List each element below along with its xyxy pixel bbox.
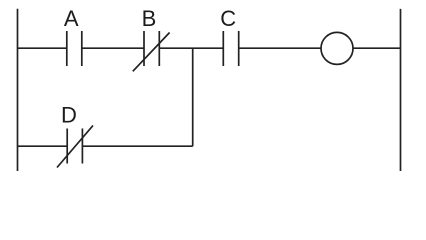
wire rung1 left rail to contact A [18, 47, 67, 49]
wire output coil to right rail [353, 47, 401, 49]
output coil [321, 32, 353, 64]
wire contact A to contact B [82, 47, 144, 49]
contact D (normally closed) [57, 126, 93, 168]
svg-text:C: C [220, 6, 236, 31]
svg-text:A: A [64, 6, 79, 31]
contact C (normally open) [223, 31, 238, 66]
wire contact C to output coil [239, 47, 321, 49]
wire contact D to junction [82, 145, 192, 147]
svg-text:D: D [61, 102, 77, 127]
contact B (normally closed) [133, 31, 170, 71]
contact A (normally open) [67, 31, 82, 66]
svg-text:B: B [142, 6, 157, 31]
left power rail [17, 9, 19, 171]
wire rung2 left rail to contact D [18, 145, 68, 147]
right power rail [400, 9, 402, 171]
junction branch vertical wire [192, 48, 194, 146]
wire contact B to contact C through junction [159, 47, 223, 49]
